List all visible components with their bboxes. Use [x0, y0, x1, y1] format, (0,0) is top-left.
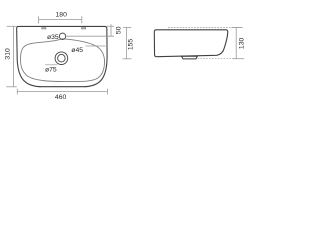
drain outer circle ø75 [55, 52, 68, 65]
svg-text:155: 155 [128, 39, 135, 51]
svg-text:180: 180 [56, 12, 68, 19]
leader line ø45 [86, 45, 106, 47]
dimension 310: lines [6, 26, 17, 87]
svg-text:ø35: ø35 [47, 34, 59, 41]
svg-text:ø75: ø75 [45, 67, 57, 74]
faucet hole circle ø35 [59, 33, 65, 39]
side view outline [154, 30, 228, 57]
mounting slot right [82, 28, 86, 29]
dimension 460: lines [17, 89, 107, 95]
dimension 50: lines [66, 24, 114, 36]
extension dashed line top [168, 27, 242, 29]
dimension 180: lines [39, 16, 82, 23]
basin outer outline [17, 26, 107, 86]
leader line ø75 [45, 64, 58, 66]
dimension 130: lines [232, 28, 245, 59]
mounting slot left [42, 28, 46, 29]
drain outlet trapezoid [182, 56, 198, 59]
extension dashed line bottom [198, 58, 237, 60]
inner bowl outline [20, 39, 104, 82]
dimension 155: lines [123, 28, 132, 59]
svg-text:310: 310 [4, 48, 11, 60]
svg-text:ø45: ø45 [71, 47, 83, 54]
svg-text:130: 130 [239, 38, 246, 50]
svg-text:460: 460 [55, 94, 67, 101]
drain inner circle ø45 [58, 54, 66, 62]
svg-text:50: 50 [115, 26, 122, 34]
